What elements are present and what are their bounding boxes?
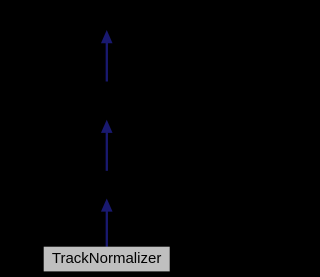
- inheritance diagram: TrackNormalizer class hierarchy (Doxygen-style, transparent bg stored as black): [0, 0, 213, 277]
- class node box: TrackNormalizer: [44, 247, 170, 272]
- inheritance arrow 3 (bottom): stem: [106, 211, 108, 246]
- inheritance arrow 1 (top): stem: [106, 43, 108, 82]
- inheritance arrow 1 (top): head: [101, 30, 113, 43]
- svg-text:TrackNormalizer: TrackNormalizer: [52, 250, 161, 267]
- inheritance arrow 3 (bottom): head: [101, 199, 113, 212]
- inheritance arrow 2 (middle): stem: [106, 133, 108, 171]
- inheritance arrow 2 (middle): head: [101, 120, 113, 133]
